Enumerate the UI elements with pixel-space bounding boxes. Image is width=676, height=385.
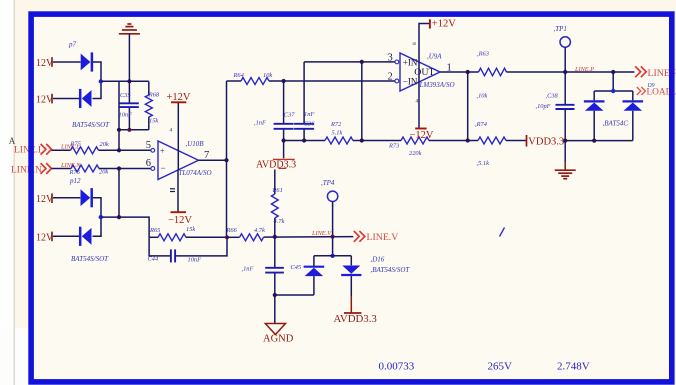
wire <box>53 197 80 199</box>
svg-text:,BAT54S/SOT: ,BAT54S/SOT <box>371 266 411 274</box>
wire bottom rail <box>119 129 149 131</box>
capacitor C45 <box>274 237 276 267</box>
svg-text:,BAT54C: ,BAT54C <box>603 119 629 127</box>
wire <box>93 81 102 98</box>
wire output 7 <box>199 159 227 161</box>
svg-text:AGND: AGND <box>263 333 294 344</box>
svg-text:AVDD3.3: AVDD3.3 <box>256 159 296 170</box>
svg-text:R65: R65 <box>149 227 160 234</box>
node pin2/C37 <box>282 79 286 83</box>
node BAT54C top <box>611 70 615 74</box>
svg-text:BAT54S/SOT: BAT54S/SOT <box>71 255 109 263</box>
svg-text:10k: 10k <box>263 72 272 79</box>
svg-text:,U10B: ,U10B <box>186 140 205 148</box>
svg-text:220k: 220k <box>409 150 422 157</box>
svg-text:,D16: ,D16 <box>371 256 385 264</box>
resistor R66 (4.7k) <box>227 236 240 238</box>
wire C45 bottom to D16 <box>275 294 314 296</box>
svg-text:,R74: ,R74 <box>475 121 488 128</box>
wire <box>93 198 101 217</box>
svg-text:C44: C44 <box>148 256 159 263</box>
svg-text:,U9A: ,U9A <box>427 53 442 61</box>
capacitor C36 <box>303 62 305 123</box>
wire bottom rail <box>284 140 325 142</box>
svg-text:LM393A/SO: LM393A/SO <box>419 81 455 89</box>
diode D16a (up) <box>313 256 315 266</box>
op-amp U10B <box>158 141 199 180</box>
ground (right) <box>564 141 566 162</box>
wire <box>93 62 101 81</box>
svg-text:R64: R64 <box>233 72 245 79</box>
resistor R74 <box>478 137 506 144</box>
svg-text:C35: C35 <box>120 92 131 99</box>
svg-text:LINE.V: LINE.V <box>311 230 332 237</box>
comparator U9A <box>400 53 440 91</box>
port LINE.V <box>354 231 365 242</box>
svg-text:C37: C37 <box>284 112 295 119</box>
svg-text:p12: p12 <box>69 177 81 185</box>
svg-text:LINE.V: LINE.V <box>367 232 399 243</box>
svg-text:−: − <box>161 163 166 173</box>
-12V power port (U9A) <box>418 82 420 128</box>
svg-text:−12V: −12V <box>168 215 192 226</box>
capacitor C37 <box>283 81 285 123</box>
capacitor C35 <box>128 101 130 103</box>
svg-text:5: 5 <box>146 140 151 151</box>
diode D9a (BAT54C left, up) <box>593 91 595 100</box>
port LINE.P <box>635 66 646 77</box>
svg-text:5.1k: 5.1k <box>332 129 343 136</box>
svg-text:A: A <box>9 136 16 146</box>
wire ground to rail <box>128 34 130 103</box>
svg-text:TL074A/SO: TL074A/SO <box>179 169 212 177</box>
diode D9b (BAT54C right, up) <box>632 91 634 100</box>
svg-text:VDD3.3: VDD3.3 <box>528 136 564 147</box>
node D16 rail <box>330 254 334 258</box>
svg-text:+IN: +IN <box>403 57 418 67</box>
svg-text:4.7k: 4.7k <box>254 227 265 234</box>
ground (top, inverted earth) <box>119 24 140 34</box>
wire to pin6 <box>99 168 151 170</box>
svg-text:2.748V: 2.748V <box>557 360 590 372</box>
svg-text:15k: 15k <box>149 118 158 125</box>
wire vertical pin3 node <box>361 62 363 141</box>
svg-text:R68: R68 <box>148 91 160 98</box>
resistor R65 <box>149 236 158 238</box>
svg-text:LINE.P: LINE.P <box>574 66 594 73</box>
wire LINE.V down to D16 <box>332 237 334 256</box>
capacitor C38 <box>564 72 566 104</box>
svg-text:4.7k: 4.7k <box>274 218 285 225</box>
wire <box>93 217 102 236</box>
wire <box>53 98 79 100</box>
wire to BAT54C <box>612 72 614 91</box>
svg-text:10nF: 10nF <box>119 111 133 118</box>
node p12 junction <box>99 215 103 219</box>
svg-text:R61: R61 <box>272 187 283 194</box>
power port VDD3.3 <box>526 135 528 147</box>
wire R64 to pin 2 <box>269 80 395 82</box>
resistor R73 <box>401 137 429 144</box>
diode D16b (down) <box>350 256 352 265</box>
wire LINE.P <box>507 71 635 73</box>
wire D16 rail <box>314 255 351 257</box>
svg-text:10nF: 10nF <box>188 257 202 264</box>
svg-text:R72: R72 <box>330 121 342 128</box>
svg-text:6: 6 <box>146 158 151 169</box>
svg-text:−IN: −IN <box>403 76 418 86</box>
svg-text:R66: R66 <box>226 227 238 234</box>
stray slash mark <box>500 228 505 237</box>
svg-text:265V: 265V <box>488 360 513 372</box>
wire to pin5 <box>99 149 151 151</box>
wire vertical to pin5 <box>118 81 120 150</box>
node R65/R66 <box>225 235 229 239</box>
svg-text:,1nF: ,1nF <box>254 120 266 127</box>
svg-text:3: 3 <box>388 52 393 63</box>
svg-text:,1nF: ,1nF <box>242 265 254 272</box>
svg-text:,C38: ,C38 <box>546 93 559 100</box>
diode D12b <box>82 228 92 245</box>
svg-text:0.00733: 0.00733 <box>379 361 415 373</box>
wire <box>52 168 72 170</box>
svg-text:p7: p7 <box>68 41 77 49</box>
svg-text:−12V: −12V <box>410 130 434 141</box>
svg-text:+: + <box>160 147 165 156</box>
port LOAD.A <box>637 87 646 95</box>
svg-text:R76: R76 <box>69 169 81 176</box>
wire vertical output to R73/R74 rail <box>467 72 469 141</box>
diode D7a <box>81 54 91 71</box>
svg-text:,TP1: ,TP1 <box>554 25 567 33</box>
wire output 1 <box>440 71 479 73</box>
svg-text:,TP4: ,TP4 <box>321 179 335 187</box>
resistor R68 <box>148 81 150 95</box>
svg-text:20k: 20k <box>100 141 109 148</box>
wire pin3 <box>304 61 395 63</box>
wire vertical R64 / feedback <box>226 81 228 237</box>
svg-text:BAT54S/SOT: BAT54S/SOT <box>72 121 110 129</box>
node LINE.V left <box>273 235 277 239</box>
node rail <box>563 139 567 143</box>
node TP1/C38 <box>563 70 567 74</box>
svg-text:2: 2 <box>388 72 393 83</box>
resistor R76 <box>71 165 99 172</box>
svg-text:LINE.N: LINE.N <box>11 165 42 175</box>
wire pin6 feedback down <box>118 169 120 218</box>
svg-text:AVDD3.3: AVDD3.3 <box>334 313 377 325</box>
wire BAT54C bottom rail <box>565 140 633 142</box>
wire rail to C35/R68 <box>101 80 149 82</box>
svg-text:,10k: ,10k <box>477 92 488 99</box>
node LINE.V <box>331 235 335 239</box>
svg-text:C36: C36 <box>304 120 315 127</box>
resistor R61 <box>274 170 276 195</box>
-12V power port (U10B) <box>177 170 179 211</box>
resistor R72 <box>325 137 353 144</box>
node dots <box>127 79 131 83</box>
wire <box>52 149 71 151</box>
node pin5 / pin6 <box>117 166 121 170</box>
capacitor C44 branch <box>149 237 170 256</box>
diode D7b <box>82 90 92 107</box>
wire <box>53 235 79 237</box>
svg-text:,5.1k: ,5.1k <box>477 160 490 167</box>
+12V power port (U9A) <box>419 24 429 83</box>
power port AVDD3.3 (bottom) <box>350 296 352 313</box>
resistor R75 <box>71 147 99 154</box>
svg-text:R73: R73 <box>388 143 399 150</box>
svg-text:4: 4 <box>170 127 173 133</box>
wire <box>53 61 81 63</box>
svg-text:1nF: 1nF <box>304 111 314 118</box>
svg-text:,R63: ,R63 <box>477 50 489 57</box>
diode D12a <box>81 189 91 206</box>
node output 7 <box>224 158 228 162</box>
node fb <box>117 215 121 219</box>
svg-text:7: 7 <box>204 150 209 161</box>
wire p12 junction to R65 <box>101 217 149 237</box>
svg-text:C45: C45 <box>291 264 302 271</box>
resistor R64 <box>227 80 242 82</box>
svg-text:15k: 15k <box>186 226 195 233</box>
svg-text:20k: 20k <box>99 169 108 176</box>
svg-text:4: 4 <box>416 99 419 105</box>
ground AGND <box>274 295 276 324</box>
resistor R63 <box>479 68 507 76</box>
svg-text:R75: R75 <box>70 140 81 147</box>
node p7 junction <box>99 79 103 83</box>
power port AVDD3.3 (mid) <box>283 141 285 159</box>
svg-text:+12V: +12V <box>432 19 456 30</box>
svg-text:,10pF: ,10pF <box>536 103 551 110</box>
svg-text:8: 8 <box>412 42 418 45</box>
